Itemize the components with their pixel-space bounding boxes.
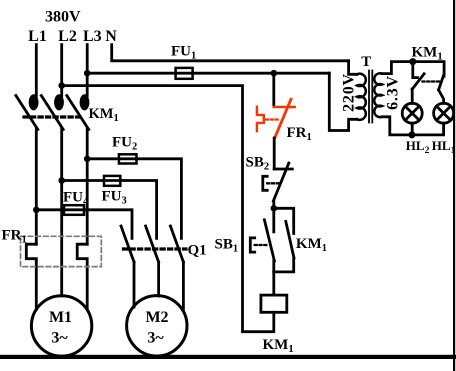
contactor KM1 aux contact branch wire [274, 208, 294, 233]
pushbutton SB2 blade [273, 163, 288, 201]
node L2-FU3 junction [58, 177, 65, 184]
wire control left rail [62, 86, 274, 332]
wire HL2 bottom [411, 123, 414, 135]
node FU1-control junction [271, 70, 278, 77]
contactor KM1 main contact 3 blob [80, 94, 90, 110]
wire M2 lead 2 [157, 262, 160, 296]
contactor KM1 main contact 1 blade [16, 96, 38, 130]
FR1 linkage dotted (red) [266, 118, 280, 120]
node L2-control junction [58, 82, 65, 89]
node lamp bottom junction [408, 131, 415, 138]
wire FR1 to SB2 [273, 138, 276, 169]
wire SB1 lower [272, 261, 275, 272]
wire SB2 to node [272, 201, 275, 209]
wire L1 drop [35, 45, 38, 96]
wire phase B lower [60, 129, 63, 296]
KM1 lamp contact left blade [412, 74, 424, 89]
node L1-FU4 junction [33, 207, 40, 214]
contactor KM1 main contact 2 blob [54, 94, 64, 110]
thermal relay FR1 heater element phase A [26, 244, 36, 309]
page bottom border [0, 355, 456, 359]
Q1 linkage dotted [124, 247, 187, 250]
contactor KM1 aux contact blade [286, 221, 294, 258]
transformer T core [368, 71, 370, 123]
KM1 lamp contact right blade [439, 76, 444, 90]
svg-text:T: T [361, 54, 371, 70]
motor M2 [127, 296, 187, 356]
svg-text:M2: M2 [145, 309, 168, 326]
wire N corner to transformer primary top [349, 61, 357, 75]
thermal relay FR1 dashed box [21, 236, 102, 266]
svg-text:Q1: Q1 [188, 243, 207, 259]
wire FU2 line [87, 159, 181, 239]
wire KM1 aux lower [274, 258, 294, 272]
transformer T primary winding [357, 74, 366, 120]
SB2 linkage dotted [267, 182, 279, 184]
lamp HL2 [402, 103, 422, 123]
svg-text:220V: 220V [341, 73, 358, 112]
svg-text:L3: L3 [83, 28, 102, 45]
node L3-FU2 junction [84, 156, 91, 163]
thermal relay FR1 release element (red) [257, 107, 264, 131]
node lamp top junction [409, 58, 416, 65]
wire secondary top [382, 62, 444, 77]
wire FU3 line [62, 181, 157, 239]
wire L3 drop [86, 45, 89, 96]
switch Q1 pole 1 [121, 226, 134, 262]
fuse FU2 [119, 154, 137, 163]
lamp HL1 [434, 103, 454, 123]
pushbutton SB2 actuator [263, 176, 267, 190]
fuse FU4 [64, 205, 84, 215]
wire FU1 line corner to transformer primary bottom [329, 73, 357, 130]
node L3-FU1 junction [84, 70, 91, 77]
svg-text:L2: L2 [58, 28, 77, 45]
page right border [453, 0, 455, 371]
wire M2 lead 1 [133, 262, 136, 307]
svg-text:6.3V: 6.3V [385, 75, 402, 110]
thermal relay FR1 heater element phase C [77, 244, 87, 309]
svg-text:N: N [105, 28, 117, 45]
svg-text:L1: L1 [28, 28, 47, 45]
svg-text:380V: 380V [45, 9, 81, 26]
svg-text:3~: 3~ [147, 330, 164, 347]
thermal relay FR1 NC contact bar (red) [274, 106, 295, 109]
switch Q1 pole 2 [146, 226, 159, 262]
motor M1 [31, 296, 91, 356]
wire to coil [272, 272, 275, 295]
switch Q1 pole 3 [170, 226, 183, 262]
wire to lamp HL2 [411, 89, 414, 103]
wire to lamp HL1 [439, 90, 444, 104]
contactor KM1 main contact 1 blob [29, 94, 39, 110]
wire L2 drop [60, 45, 63, 96]
SB1 linkage dotted [255, 244, 268, 246]
svg-text:M1: M1 [49, 309, 72, 326]
wire phase A lower [35, 129, 38, 244]
wire FU1 line [87, 72, 329, 75]
fuse FU1 [176, 68, 193, 79]
contactor KM1 main contact 3 blade [67, 96, 89, 130]
wire M2 lead 3 [182, 262, 185, 309]
wire control column top [272, 73, 275, 106]
wire N [112, 45, 349, 61]
wire lamps bottom [382, 117, 444, 135]
thermal relay FR1 NC contact blade (red) [275, 99, 291, 138]
pushbutton SB1 stub [272, 208, 275, 232]
pushbutton SB2 bar [274, 168, 292, 171]
coil KM1 [261, 295, 287, 312]
wire phase C lower [86, 129, 89, 244]
wire FU4 line [36, 210, 132, 239]
KM1 main linkage dotted [24, 115, 81, 118]
fuse FU3 [104, 176, 120, 186]
pushbutton SB1 actuator [250, 238, 254, 252]
KM1 lamp contacts dotted [423, 80, 441, 82]
node SB1-KM1 junction [271, 205, 278, 212]
transformer T secondary winding [374, 73, 382, 117]
svg-text:3~: 3~ [51, 330, 68, 347]
contactor KM1 main contact 2 blade [41, 96, 63, 130]
pushbutton SB1 blade [264, 220, 274, 261]
KM1 lamp contact left stub [413, 62, 418, 78]
